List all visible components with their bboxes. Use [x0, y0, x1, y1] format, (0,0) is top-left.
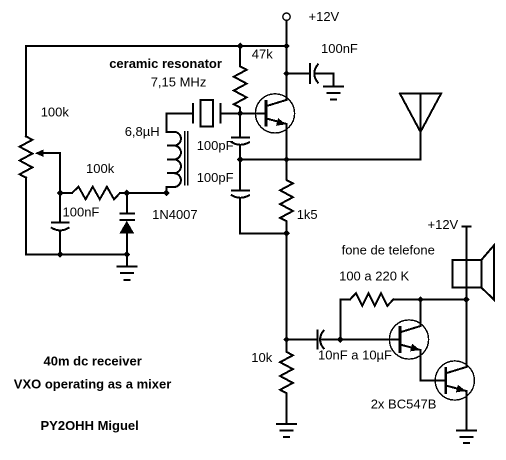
- junction node top rail R3: [237, 43, 244, 50]
- resistor R2 100k: [72, 187, 120, 200]
- svg-text:1k5: 1k5: [297, 207, 318, 222]
- resistor R5 10k: [280, 340, 293, 424]
- terminal +12V open circle: [283, 13, 290, 20]
- transistor Q3 base bar: [444, 369, 447, 393]
- junction node D: [283, 336, 290, 343]
- ceramic resonator X1 plates: [193, 104, 220, 122]
- transistor Q1 collector: [266, 100, 287, 106]
- wire Q1 emitter to output rail: [286, 124, 288, 160]
- terminal +12V audio bar: [462, 225, 470, 227]
- junction node A: [57, 190, 64, 197]
- transistor Q2 emitter: [400, 345, 421, 351]
- svg-text:100k: 100k: [41, 104, 70, 119]
- junction node bottom rail D1: [123, 251, 130, 258]
- junction node C: [283, 230, 290, 237]
- ground below C5: [324, 87, 343, 100]
- wire top +12V rail: [26, 45, 287, 47]
- svg-text:VXO operating as a mixer: VXO operating as a mixer: [14, 376, 172, 391]
- wire node C down to node D: [286, 233, 288, 339]
- wire Q1 collector to +12V terminal: [286, 21, 288, 100]
- junction node bottom rail C2: [57, 251, 64, 258]
- junction node supply Q2: [417, 296, 424, 303]
- wire node A to R2: [60, 192, 72, 194]
- wire bottom-left rail: [26, 253, 127, 255]
- wire R6 to supply node: [393, 299, 466, 301]
- potentiometer R1 100k: [20, 136, 33, 177]
- antenna: [400, 94, 441, 160]
- inductor L1 6,8uH: [166, 113, 181, 193]
- resistor R4 1k5: [280, 160, 293, 234]
- svg-text:+12V: +12V: [428, 217, 459, 232]
- transistor Q2 base bar: [399, 328, 402, 352]
- transistor Q1 emitter arrow: [276, 118, 286, 126]
- wire node E up to feedback resistor: [340, 300, 350, 340]
- wire output rail to antenna: [240, 159, 420, 161]
- svg-text:100k: 100k: [86, 161, 115, 176]
- transistor Q2 emitter arrow: [410, 344, 420, 352]
- wire node E to Q2 base: [340, 339, 400, 341]
- transistor Q1 base bar: [265, 101, 268, 125]
- transistor Q2 collector: [400, 326, 421, 332]
- ground below D1: [117, 254, 136, 280]
- capacitor C5 100nF decoupling: [287, 64, 334, 86]
- svg-text:47k: 47k: [252, 47, 273, 62]
- wire resonator to node B: [220, 112, 240, 114]
- ground below Q3: [457, 431, 476, 444]
- speaker horn: [481, 246, 494, 300]
- wire R2 to inductor bottom node: [120, 192, 166, 194]
- svg-text:40m dc receiver: 40m dc receiver: [44, 354, 142, 369]
- svg-text:6,8µH: 6,8µH: [125, 124, 160, 139]
- junction node output rail Q1 emitter: [283, 156, 290, 163]
- potentiometer wiper arrow: [35, 149, 44, 157]
- capacitor C3 100pF: [232, 113, 249, 159]
- svg-text:100 a 220 K: 100 a 220 K: [339, 268, 409, 283]
- varicap D1 triangle: [119, 221, 134, 234]
- svg-text:+12V: +12V: [309, 9, 340, 24]
- svg-text:100nF: 100nF: [63, 205, 100, 220]
- junction node B: [237, 110, 244, 117]
- svg-text:10k: 10k: [251, 350, 272, 365]
- svg-text:100pF: 100pF: [197, 170, 234, 185]
- wire +12V to speaker and supply node: [465, 226, 467, 299]
- junction node output rail left: [237, 156, 244, 163]
- svg-text:ceramic resonator: ceramic resonator: [109, 56, 222, 71]
- svg-text:2x BC547B: 2x BC547B: [371, 396, 437, 411]
- transistor Q3 circle: [435, 361, 474, 400]
- inductor L1 core: [185, 132, 188, 185]
- svg-text:7,15 MHz: 7,15 MHz: [151, 75, 207, 90]
- wire Q3 emitter to ground: [465, 391, 467, 431]
- capacitor C2 100nF: [52, 193, 69, 254]
- transistor Q1 circle: [255, 94, 294, 133]
- junction node top rail Q1: [283, 43, 290, 50]
- capacitor C4 100pF: [232, 160, 249, 234]
- wire Q2 collector up: [420, 300, 422, 327]
- junction node D1 top: [123, 190, 130, 197]
- varicap diode D1 1N4007: [121, 193, 135, 254]
- resistor R6 100a220K feedback: [350, 293, 393, 306]
- junction node inductor bottom: [163, 190, 170, 197]
- wire node B to Q1 base: [240, 112, 266, 114]
- transistor Q3 emitter arrow: [456, 385, 466, 393]
- svg-text:PY2OHH Miguel: PY2OHH Miguel: [41, 418, 139, 433]
- svg-text:100pF: 100pF: [197, 138, 234, 153]
- wire inductor top to resonator: [166, 112, 193, 114]
- wire left vertical below potentiometer: [25, 178, 27, 255]
- resistor R3 47k: [234, 46, 247, 113]
- svg-text:fone de telefone: fone de telefone: [342, 243, 435, 258]
- svg-text:100nF: 100nF: [321, 41, 358, 56]
- wire Q3 collector up: [465, 300, 467, 368]
- svg-text:10nF a 10µF: 10nF a 10µF: [318, 347, 392, 362]
- ceramic resonator X1 body: [200, 100, 213, 126]
- transistor Q1 emitter: [266, 118, 287, 124]
- junction node supply speaker: [463, 296, 470, 303]
- wire C4 bottom to node C: [240, 232, 286, 234]
- svg-text:1N4007: 1N4007: [152, 207, 198, 222]
- ground below R5: [277, 424, 296, 437]
- transistor Q3 collector: [446, 367, 467, 373]
- junction node E: [337, 336, 344, 343]
- wire Q2 emitter to Q3 base: [421, 350, 446, 381]
- junction node C5: [283, 70, 290, 77]
- transistor Q3 emitter: [446, 386, 467, 392]
- speaker body: [453, 260, 482, 288]
- capacitor C6 coupling: [287, 330, 341, 348]
- wire wiper to node A: [43, 153, 60, 193]
- wire left vertical to potentiometer: [25, 46, 27, 136]
- transistor Q2 circle: [389, 320, 428, 359]
